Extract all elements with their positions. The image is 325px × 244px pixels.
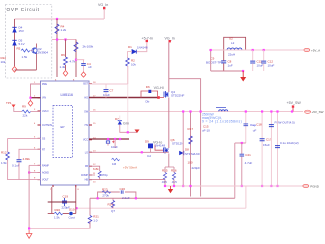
resistor R4 1.2k [55, 24, 67, 34]
svg-text:C20: C20 [120, 187, 126, 191]
svg-text:Db: Db [146, 100, 150, 104]
svg-text:RT: RT [42, 148, 46, 151]
bus2 maroon [90, 197, 235, 199]
svg-text:uF-10: uF-10 [202, 129, 210, 133]
IC right pin stubs [89, 84, 92, 180]
svg-text:D9: D9 [145, 140, 149, 144]
capacitor C7 bypass [103, 84, 114, 98]
capacitor C19 220pF [62, 198, 67, 206]
svg-text:1.5k: 1.5k [1, 161, 7, 165]
svg-text:C21: C21 [245, 153, 251, 157]
resistor R6 column x65.5 with ground [60, 40, 76, 77]
svg-text:+5V_SW: +5V_SW [287, 101, 302, 105]
wire BST top y84 [89, 83, 128, 85]
wire RT [19, 149, 41, 159]
svg-text:OVP Circuit: OVP Circuit [7, 7, 40, 12]
IC pin names right [81, 83, 89, 182]
svg-text:1uF: 1uF [228, 64, 233, 68]
connector GND right [303, 184, 320, 188]
BST wire dark [89, 97, 160, 99]
inductor L3 on SW bus [216, 108, 228, 112]
long wire from RAMP node to bottom [28, 165, 30, 228]
svg-text:4.7k: 4.7k [70, 60, 76, 64]
resistor R9 22k [22, 105, 41, 118]
capacitor column D 0.1u [277, 112, 279, 187]
svg-text:R16: R16 [171, 169, 177, 173]
resistor Rs1 [163, 173, 166, 180]
svg-text:+5V_A: +5V_A [311, 48, 320, 52]
capacitor column C PSW-OUT [270, 112, 272, 187]
svg-text:C19: C19 [63, 195, 69, 199]
svg-text:STD12N: STD12N [172, 142, 184, 146]
svg-text:BST: BST [83, 83, 88, 86]
inductor L2 22uH [227, 48, 242, 57]
split to two sense resistors [165, 167, 174, 173]
svg-text:R15: R15 [162, 169, 168, 173]
FB RC cluster [89, 166, 108, 179]
svg-text:1.2k: 1.2k [61, 28, 67, 32]
svg-text:VOUT: VOUT [42, 179, 49, 182]
svg-text:VG-HI: VG-HI [154, 86, 164, 90]
svg-text:Cap: Cap [250, 123, 256, 127]
svg-text:VIN: VIN [42, 97, 46, 100]
svg-text:5.1V: 5.1V [19, 42, 25, 46]
svg-text:470p: 470p [101, 173, 108, 177]
wire top elbow to x200.6 [169, 79, 201, 112]
svg-text:R12: R12 [1, 151, 7, 155]
wire bottom of OVP [15, 69, 37, 71]
IC pin numbers [34, 82, 96, 191]
resistor R20 1.5k and diode D10 [48, 213, 54, 215]
svg-text:+5-7-In: +5-7-In [142, 36, 154, 40]
resistor R2 10k [126, 58, 137, 84]
svg-text:R17: R17 [188, 127, 194, 131]
svg-text:10k: 10k [131, 63, 136, 67]
LO wire [89, 140, 169, 159]
zener D4 [12, 26, 24, 34]
svg-text:270k: 270k [102, 193, 109, 197]
column x201.8 [200, 112, 202, 197]
svg-text:OUTSNS: OUTSNS [42, 124, 52, 127]
svg-text:R20: R20 [55, 208, 61, 212]
left pin1 wire [31, 84, 41, 98]
OVP circuit dashed enclosure [6, 5, 52, 79]
svg-text:R5: R5 [17, 47, 21, 51]
wire resistor column x57 [56, 19, 58, 77]
ground diamond under zener chain [12, 67, 17, 73]
svg-text:1N4148: 1N4148 [137, 46, 148, 50]
svg-text:22uH: 22uH [228, 53, 235, 57]
wire to resistor R3 [128, 52, 133, 58]
wire SS [8, 138, 41, 152]
svg-text:uF: uF [253, 128, 257, 132]
ground diamond under VIN node [30, 99, 32, 101]
svg-text:2N3904: 2N3904 [38, 51, 49, 55]
wire top horizontal VG rail [15, 18, 105, 20]
bottom rail y229.5 [29, 228, 90, 230]
svg-text:D8: D8 [185, 148, 189, 152]
svg-text:10uF: 10uF [103, 93, 110, 97]
svg-text:LM5116: LM5116 [61, 93, 73, 97]
svg-text:1.5k: 1.5k [22, 55, 28, 59]
VCC wire network right of IC [89, 138, 129, 149]
mosfet Q6 low side [153, 138, 184, 154]
svg-text:PGND: PGND [310, 184, 320, 188]
svg-text:10uF: 10uF [268, 64, 275, 68]
svg-text:9 = 24 (1.1x16358ms): 9 = 24 (1.1x16358ms) [202, 119, 242, 123]
wire zener chain vertical [14, 19, 16, 66]
bus3 pink [77, 186, 246, 208]
svg-text:HB: HB [85, 179, 89, 182]
diode D1 1N4148 [128, 45, 148, 54]
GND bus y186 [166, 185, 303, 187]
diode D9 1N4148 [148, 144, 153, 149]
svg-text:R24: R24 [108, 203, 114, 207]
svg-text:4.7uF: 4.7uF [245, 161, 253, 165]
node VG_In [98, 3, 108, 19]
capacitor C14 10uF [106, 141, 109, 143]
svg-text:AGND: AGND [42, 172, 49, 175]
connector +5V out [304, 48, 320, 52]
vertical resistor between buses [108, 198, 116, 213]
right cap bank columns [235, 110, 299, 198]
wire VG down to FET [168, 42, 170, 92]
IC pin names left [42, 83, 52, 182]
IC left pin stubs [38, 84, 41, 180]
resistor R12 [6, 152, 10, 160]
svg-text:uF: uF [88, 65, 92, 69]
svg-text:1.0: 1.0 [93, 219, 98, 223]
wire to bypass cap [76, 59, 84, 61]
open arrow down [28, 230, 30, 234]
ground arrow [242, 71, 244, 77]
svg-text:RAMP: RAMP [42, 164, 49, 167]
capacitor C17 column B [261, 112, 263, 187]
IC U1 LM5116 [41, 79, 90, 185]
svg-text:220pF: 220pF [192, 166, 201, 170]
svg-text:+5V 50mA: +5V 50mA [123, 166, 137, 170]
svg-text:UVLO: UVLO [42, 110, 49, 113]
wire from +5-7-In [137, 42, 147, 52]
svg-text:VG_In: VG_In [98, 3, 108, 7]
svg-text:1M: 1M [112, 162, 117, 166]
boost diode cluster [141, 85, 158, 104]
svg-text:EP: EP [61, 125, 65, 129]
capacitor C11 [250, 50, 263, 71]
svg-text:1.5k: 1.5k [54, 216, 60, 220]
svg-text:2k-100k: 2k-100k [83, 44, 94, 48]
svg-text:LO: LO [85, 151, 88, 154]
+5V_SW stub [287, 101, 302, 113]
gnd rail under boost [211, 70, 244, 72]
svg-text:0.1u 10uF(x2): 0.1u 10uF(x2) [280, 141, 299, 145]
wire RAMP loop [29, 164, 40, 166]
sub box below IC [48, 187, 76, 220]
svg-text:10k: 10k [1, 60, 6, 64]
svg-text:1N4148: 1N4148 [155, 144, 166, 148]
svg-text:Cout: Cout [69, 216, 76, 220]
svg-text:STPS2L60: STPS2L60 [185, 152, 200, 156]
svg-text:100: 100 [188, 161, 193, 165]
SW bus y111.5 [89, 111, 303, 113]
svg-text:L2: L2 [231, 41, 235, 45]
svg-text:R23: R23 [102, 188, 108, 192]
svg-text:C18: C18 [256, 123, 262, 127]
capacitor C18 column A [245, 112, 247, 144]
capacitor C21 4.7uF column x241.8 [241, 143, 243, 154]
wire bracket [224, 37, 246, 57]
junction dot [56, 38, 58, 40]
svg-text:Q7: Q7 [111, 209, 115, 213]
transistor Q2 with base resistor R5 [17, 44, 49, 71]
svg-text:SS: SS [42, 137, 46, 140]
capacitor C12 [261, 50, 274, 71]
svg-text:D10: D10 [69, 208, 75, 212]
svg-text:STD22NF: STD22NF [171, 94, 185, 98]
svg-text:15V: 15V [19, 29, 24, 33]
right column x90 with resistor [88, 198, 99, 228]
mosfet Q4 high side [154, 86, 185, 97]
svg-text:22k: 22k [23, 114, 28, 118]
svg-text:Grn: Grn [123, 122, 129, 126]
column x190.5 with resistor [188, 110, 201, 196]
capacitor C13 0.1uF [17, 160, 22, 162]
resistor R8 column x76 [74, 40, 78, 78]
svg-text:+5V_SW: +5V_SW [312, 110, 324, 114]
capacitor C8 1uF [221, 61, 226, 63]
svg-text:2.2uF: 2.2uF [122, 196, 130, 200]
svg-text:.015: .015 [161, 180, 167, 184]
wire SW source column down [168, 154, 170, 168]
node BOOST test point C9 [206, 37, 246, 82]
svg-text:4.99k: 4.99k [23, 157, 31, 161]
diode D8 [179, 148, 200, 157]
svg-text:VG_In: VG_In [165, 36, 175, 40]
RC loop above bus2 [97, 187, 138, 200]
svg-text:HO: HO [84, 97, 88, 100]
svg-text:TP1: TP1 [6, 101, 12, 105]
resistor Rs2 [172, 173, 175, 180]
svg-text:Cd: Cd [147, 154, 151, 158]
bar y143 and legs [235, 142, 246, 144]
svg-text:HS: HS [85, 124, 89, 127]
left network SS/RT [1, 138, 41, 179]
svg-text:VCC: VCC [83, 139, 88, 142]
svg-text:FB: FB [85, 165, 88, 168]
svg-text:D6: D6 [146, 85, 150, 89]
svg-text:PRE: PRE [42, 83, 47, 86]
faint column from R2 down [127, 84, 129, 132]
bypass cap C4 with diamond ground [81, 60, 92, 77]
diode D7 LED [115, 116, 140, 134]
teal annotation [202, 113, 242, 124]
testpoint flag left [6, 101, 22, 112]
svg-text:COMP: COMP [81, 174, 89, 177]
SW node column [168, 98, 170, 149]
+5V output rail y50 [209, 49, 303, 51]
svg-text:R6: R6 [61, 53, 65, 57]
column x183 catch diode net [182, 112, 184, 187]
zener D5 [12, 39, 24, 47]
svg-text:10uF: 10uF [111, 145, 118, 149]
ground arrow under bus [170, 186, 172, 189]
svg-text:R9: R9 [22, 105, 26, 109]
IC bottom pin stubs [53, 185, 76, 187]
resistor 1M under LO wire [112, 158, 120, 166]
svg-text:BOOST-TP1: BOOST-TP1 [206, 61, 223, 65]
svg-text:6.8k: 6.8k [93, 167, 99, 171]
svg-text:C7: C7 [110, 89, 114, 93]
bottom wire from IC right [89, 179, 164, 181]
wire horizontal y39.5 [52, 39, 76, 41]
connector +5V mid [305, 110, 324, 114]
svg-text:D1: D1 [128, 45, 132, 49]
svg-text:10uF: 10uF [257, 64, 264, 68]
svg-text:15uF: 15uF [263, 143, 270, 147]
svg-text:1.4k: 1.4k [60, 65, 66, 69]
dark VIN wire [31, 97, 41, 99]
svg-text:U2: U2 [229, 37, 233, 41]
